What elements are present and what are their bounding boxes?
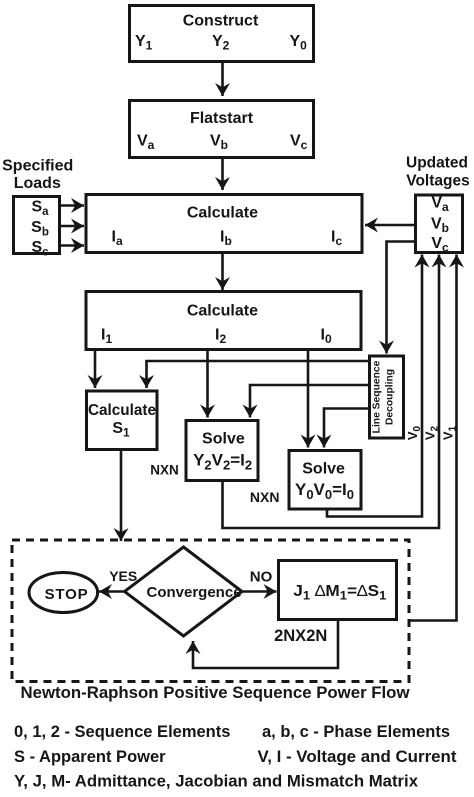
svg-text:Convergence: Convergence — [147, 584, 242, 601]
svg-text:NO: NO — [250, 569, 273, 586]
svg-text:NXN: NXN — [150, 463, 179, 478]
svg-text:0, 1, 2 - Sequence Elements: 0, 1, 2 - Sequence Elements — [14, 723, 230, 741]
svg-text:S - Apparent Power: S - Apparent Power — [14, 748, 166, 766]
svg-text:Loads: Loads — [14, 175, 61, 192]
svg-text:Voltages: Voltages — [406, 173, 469, 190]
svg-text:Y2V2=I2: Y2V2=I2 — [193, 451, 252, 473]
svg-text:Y, J, M- Admittance, Jacobian: Y, J, M- Admittance, Jacobian and Mismat… — [14, 773, 419, 791]
svg-text:NXN: NXN — [250, 489, 280, 505]
svg-text:Updated: Updated — [406, 155, 468, 172]
svg-text:V0: V0 — [405, 425, 423, 440]
svg-text:YES: YES — [109, 568, 137, 584]
svg-text:V, I - Voltage and Current: V, I - Voltage and Current — [258, 748, 458, 766]
svg-text:2NX2N: 2NX2N — [274, 627, 327, 645]
svg-text:STOP: STOP — [45, 586, 89, 603]
svg-text:Specified: Specified — [2, 158, 73, 175]
svg-text:Solve: Solve — [302, 461, 345, 478]
svg-text:Calculate: Calculate — [187, 303, 258, 320]
svg-text:Construct: Construct — [183, 13, 259, 30]
svg-text:Calculate: Calculate — [88, 402, 156, 419]
svg-text:Y0V0=I0: Y0V0=I0 — [295, 480, 354, 502]
svg-text:Newton-Raphson Positive Sequen: Newton-Raphson Positive Sequence Power F… — [21, 684, 410, 702]
svg-text:Solve: Solve — [202, 431, 245, 448]
svg-text:a, b, c - Phase Elements: a, b, c - Phase Elements — [262, 723, 450, 741]
svg-text:Calculate: Calculate — [187, 205, 258, 222]
svg-text:Flatstart: Flatstart — [190, 110, 254, 127]
